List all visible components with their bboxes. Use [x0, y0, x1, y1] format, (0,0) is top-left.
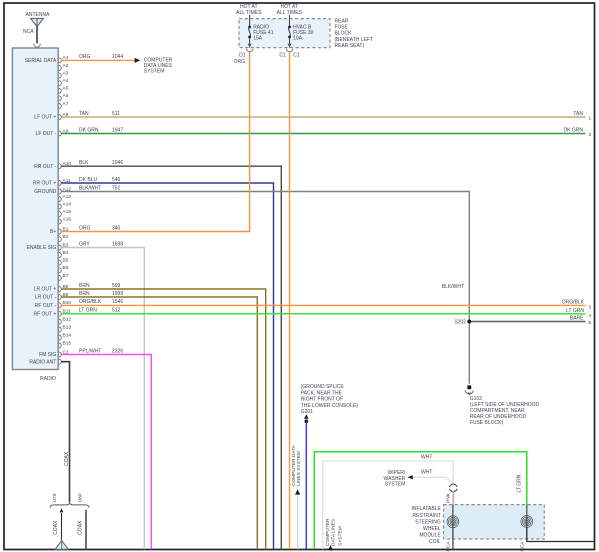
- wire PNK into coil: [452, 490, 454, 504]
- svg-text:TAN: TAN: [79, 111, 89, 117]
- svg-text:PPL/WHT: PPL/WHT: [79, 348, 101, 354]
- label G102 ground description: [470, 396, 540, 426]
- svg-text:WHEEL: WHEEL: [423, 526, 441, 532]
- svg-text:FM SIG: FM SIG: [39, 352, 56, 358]
- fuse RADIO FUSE 41 15A: [246, 15, 273, 52]
- pin 2 right edge: [589, 132, 592, 138]
- ground splice G201 symbol: [304, 414, 309, 423]
- svg-text:4: 4: [589, 313, 592, 319]
- svg-text:B2: B2: [63, 234, 69, 240]
- wire B9 BRN 1999: [61, 291, 257, 550]
- svg-text:LF OUT -: LF OUT -: [36, 131, 57, 137]
- svg-text:GROUND: GROUND: [34, 189, 57, 195]
- svg-text:A14: A14: [63, 201, 72, 207]
- svg-text:A2: A2: [63, 63, 69, 69]
- wire C1 PPL/WHT 2326: [61, 348, 151, 549]
- svg-text:1947: 1947: [112, 127, 123, 133]
- svg-text:B6: B6: [63, 265, 69, 271]
- svg-text:A15: A15: [63, 209, 72, 215]
- svg-text:B7: B7: [63, 273, 69, 279]
- wire NCA from left coil: [452, 528, 454, 550]
- label computer data lines system (rotated, middle): [291, 444, 302, 486]
- svg-text:PACK, NEAR THE: PACK, NEAR THE: [301, 390, 343, 396]
- wire B8 BRN 599: [61, 283, 266, 550]
- svg-text:SYSTEM: SYSTEM: [385, 481, 406, 487]
- svg-text:ORG/BLK: ORG/BLK: [79, 299, 102, 305]
- svg-text:340: 340: [112, 225, 121, 231]
- svg-text:3: 3: [589, 304, 592, 310]
- svg-text:1: 1: [589, 116, 592, 122]
- svg-text:ENABLE SIG: ENABLE SIG: [27, 245, 57, 251]
- splice S202: [454, 320, 471, 326]
- label U80: [77, 493, 83, 502]
- svg-text:A13: A13: [63, 194, 72, 200]
- inline connector at coil (brackets): [450, 484, 457, 491]
- svg-text:(LEFT SIDE OF UNDERHOOD: (LEFT SIDE OF UNDERHOOD: [470, 402, 540, 408]
- svg-text:BLK: BLK: [79, 160, 89, 166]
- svg-text:COAX: COAX: [53, 520, 59, 535]
- svg-text:DK GRN: DK GRN: [564, 128, 584, 134]
- label PNK rotated: [446, 492, 452, 503]
- svg-text:SERIAL DATA: SERIAL DATA: [25, 58, 57, 64]
- wire WHT to computer data lines (vertical): [297, 495, 299, 549]
- ground G102 symbol: [465, 385, 473, 394]
- svg-text:2: 2: [589, 132, 592, 138]
- svg-text:COAX: COAX: [77, 520, 83, 535]
- svg-text:LF OUT +: LF OUT +: [34, 115, 56, 121]
- svg-text:ANTENNA: ANTENNA: [26, 12, 51, 18]
- label D1 ORG: [234, 53, 246, 65]
- svg-text:NCA: NCA: [23, 29, 34, 35]
- svg-text:GRY: GRY: [79, 241, 90, 247]
- svg-text:RADIO ANT: RADIO ANT: [29, 359, 56, 365]
- svg-text:RF OUT -: RF OUT -: [35, 303, 57, 309]
- radio connector box: [12, 48, 58, 370]
- wire DK BLU from G201 down: [305, 423, 307, 550]
- wire BARE from S202: [471, 315, 586, 321]
- svg-text:10A: 10A: [293, 36, 303, 42]
- svg-text:A16: A16: [63, 216, 72, 222]
- wire WHT loop: [323, 461, 454, 549]
- svg-text:D1: D1: [239, 53, 246, 59]
- svg-text:RR OUT +: RR OUT +: [33, 181, 56, 187]
- svg-text:DK GRN: DK GRN: [79, 127, 99, 133]
- svg-text:ORG: ORG: [234, 59, 246, 65]
- wire coax to antenna (left branch): [60, 508, 64, 541]
- svg-text:LT GRN: LT GRN: [566, 308, 584, 314]
- coil L2 (right): [521, 505, 533, 528]
- svg-text:LINES SYSTEM: LINES SYSTEM: [296, 451, 302, 486]
- svg-text:BARE: BARE: [570, 315, 584, 321]
- wire A11 DK BLU 546: [61, 177, 273, 550]
- coil L1 (left): [447, 505, 459, 528]
- arrow up (in green loop): [328, 545, 333, 550]
- label COAX lower-left: [53, 520, 59, 535]
- wire A9 DK GRN 1947: [61, 127, 585, 133]
- wire NCA from right coil: [527, 527, 594, 541]
- svg-text:ORG: ORG: [79, 225, 91, 231]
- label LT GRN rotated: [517, 474, 523, 492]
- label NCA right: [519, 541, 525, 552]
- label COAX lower-right: [77, 520, 83, 535]
- svg-text:1698: 1698: [112, 241, 123, 247]
- svg-text:BLK/WHT: BLK/WHT: [79, 185, 101, 191]
- svg-text:COAX: COAX: [64, 451, 70, 466]
- svg-text:FUSE BLOCK): FUSE BLOCK): [470, 420, 504, 426]
- arrow computer data lines (middle): [295, 489, 300, 494]
- label ORG/BLK right end: [562, 300, 585, 306]
- svg-text:ORG: ORG: [79, 54, 91, 60]
- antenna symbol bottom (cut off): [55, 541, 68, 550]
- svg-text:FUSE: FUSE: [335, 25, 349, 31]
- pin 3 right edge: [589, 304, 592, 310]
- label HOT AT ALL TIMES (right fuse): [277, 4, 303, 16]
- svg-text:B14: B14: [63, 332, 72, 338]
- radio component label: [40, 376, 56, 382]
- svg-text:RADIO: RADIO: [40, 376, 56, 382]
- wire A8 TAN 511: [61, 111, 585, 117]
- svg-text:599: 599: [112, 283, 121, 289]
- label computer data lines system (top): [144, 57, 173, 74]
- wire WHT branch to wiper/washer: [413, 477, 453, 484]
- svg-text:U80: U80: [77, 493, 83, 502]
- svg-text:2326: 2326: [112, 348, 123, 354]
- svg-text:SYSTEM: SYSTEM: [144, 69, 165, 75]
- svg-text:B13: B13: [63, 324, 72, 330]
- svg-text:RF OUT +: RF OUT +: [33, 311, 56, 317]
- label inflatable restraint steering wheel module coil: [412, 506, 442, 545]
- svg-text:RESTRAINT: RESTRAINT: [412, 513, 440, 519]
- wire A10 BLK 1946: [61, 160, 281, 549]
- wire coax off-page (right branch): [85, 510, 87, 550]
- svg-text:A4: A4: [63, 78, 69, 84]
- svg-text:COIL: COIL: [429, 539, 441, 545]
- svg-text:751: 751: [112, 185, 121, 191]
- svg-text:BLK/WHT: BLK/WHT: [442, 284, 464, 290]
- svg-text:1044: 1044: [112, 54, 123, 60]
- svg-text:B12: B12: [63, 316, 72, 322]
- svg-text:REAR SEAT): REAR SEAT): [335, 43, 365, 49]
- svg-text:INFLATABLE: INFLATABLE: [412, 506, 442, 512]
- label wiper/washer system: [384, 470, 406, 487]
- svg-text:512: 512: [112, 308, 121, 314]
- svg-text:A5: A5: [63, 86, 69, 92]
- svg-text:C1: C1: [279, 53, 286, 59]
- label DK GRN right end: [564, 128, 584, 134]
- svg-text:DK BLU: DK BLU: [79, 177, 97, 183]
- svg-text:REAR: REAR: [335, 19, 349, 25]
- label COAX upper: [64, 451, 70, 466]
- svg-text:COMPARTMENT, NEAR: COMPARTMENT, NEAR: [470, 408, 525, 414]
- label U79: [52, 493, 58, 502]
- svg-text:NCA: NCA: [445, 541, 451, 552]
- svg-text:BRN: BRN: [79, 283, 90, 289]
- label BLK/WHT vertical run: [442, 284, 464, 290]
- svg-text:(GROUND SPLICE: (GROUND SPLICE: [301, 384, 345, 390]
- svg-text:1999: 1999: [112, 291, 123, 297]
- wire A12 BLK/WHT 751: [61, 185, 469, 383]
- radio internal signal labels: [25, 58, 57, 365]
- wire LT GRN loop: [314, 452, 527, 550]
- antenna symbol (vehicle antenna, NCA): [26, 12, 51, 47]
- svg-text:(BENEATH LEFT: (BENEATH LEFT: [335, 37, 374, 43]
- svg-text:5: 5: [589, 320, 592, 326]
- label TAN right end: [573, 111, 583, 117]
- wire B3 GRY 1698: [61, 241, 144, 549]
- label HOT AT ALL TIMES (left fuse): [236, 4, 262, 16]
- svg-text:SYSTEM: SYSTEM: [337, 526, 343, 546]
- wire A1 ORG 1044: [61, 54, 134, 60]
- svg-text:BLOCK: BLOCK: [335, 31, 353, 37]
- label LT GRN right end: [566, 308, 584, 314]
- label C1 C1: [279, 53, 299, 59]
- svg-text:THE LOWER CONSOLE): THE LOWER CONSOLE): [301, 403, 359, 409]
- svg-text:U79: U79: [52, 493, 58, 502]
- svg-text:LR OUT -: LR OUT -: [35, 295, 57, 301]
- svg-text:COMPUTER: COMPUTER: [325, 518, 331, 546]
- svg-text:A7: A7: [63, 101, 69, 107]
- label WHT branch: [421, 470, 432, 476]
- svg-text:WHT: WHT: [421, 470, 432, 476]
- svg-text:NCA: NCA: [519, 541, 525, 552]
- arrow to wiper/washer system: [407, 475, 412, 479]
- svg-text:MODULE: MODULE: [419, 533, 441, 539]
- fuse HVAC B FUSE 30 10A: [286, 15, 313, 52]
- label G201 ground splice: [301, 384, 359, 415]
- radio pin number labels A1-C1: [63, 55, 72, 355]
- svg-text:RIGHT FRONT OF: RIGHT FRONT OF: [301, 397, 343, 403]
- svg-text:S202: S202: [454, 320, 466, 326]
- svg-text:1946: 1946: [112, 160, 123, 166]
- svg-text:511: 511: [112, 111, 120, 117]
- radio connector pin brackets: [59, 58, 62, 364]
- svg-text:PNK: PNK: [446, 492, 452, 503]
- rear fuse block box: [239, 19, 330, 48]
- inflatable restraint coil module box: [444, 505, 545, 539]
- svg-text:ORG/BLK: ORG/BLK: [562, 300, 585, 306]
- connector brace U79/U80: [50, 502, 89, 507]
- svg-text:G102: G102: [470, 396, 482, 402]
- wire B1 ORG 340 to fuse D1: [61, 52, 249, 232]
- pin 5 right edge: [589, 320, 592, 326]
- svg-text:TAN: TAN: [573, 111, 583, 117]
- svg-text:LT GRN: LT GRN: [517, 474, 523, 492]
- label NCA left: [445, 541, 451, 552]
- antenna label NCA: [23, 29, 34, 35]
- svg-text:DATA LINES: DATA LINES: [330, 519, 336, 546]
- svg-text:B5: B5: [63, 258, 69, 264]
- svg-text:B15: B15: [63, 340, 72, 346]
- arrow to computer data lines system: [135, 58, 141, 63]
- svg-text:STEERING: STEERING: [415, 519, 441, 525]
- pin 1 right edge: [589, 116, 592, 122]
- label computer data lines system (rotated, in green loop): [325, 518, 343, 546]
- svg-text:1546: 1546: [112, 299, 123, 305]
- pin 4 right edge: [589, 313, 592, 319]
- label rear fuse block: [335, 19, 374, 49]
- wire B10 ORG/BLK 1546: [61, 299, 585, 305]
- svg-text:WHT: WHT: [421, 454, 432, 460]
- svg-text:LT GRN: LT GRN: [79, 308, 97, 314]
- svg-text:REAR OF UNDERHOOD: REAR OF UNDERHOOD: [470, 414, 527, 420]
- svg-text:LR OUT +: LR OUT +: [34, 287, 57, 293]
- svg-text:C1: C1: [293, 53, 300, 59]
- svg-text:546: 546: [112, 177, 121, 183]
- label WHT top: [421, 454, 432, 460]
- wire ORG from fuse C1 down: [289, 52, 291, 550]
- wire RADIO ANT coax: [61, 362, 69, 502]
- svg-text:BRN: BRN: [79, 291, 90, 297]
- svg-text:G201: G201: [301, 409, 313, 415]
- svg-text:A3: A3: [63, 70, 69, 76]
- wire B11 LT GRN 512: [61, 308, 585, 314]
- svg-text:A6: A6: [63, 93, 69, 99]
- svg-text:B4: B4: [63, 250, 69, 256]
- svg-text:15A: 15A: [253, 36, 263, 42]
- svg-text:B+: B+: [50, 229, 56, 235]
- svg-text:RR OUT -: RR OUT -: [34, 164, 56, 170]
